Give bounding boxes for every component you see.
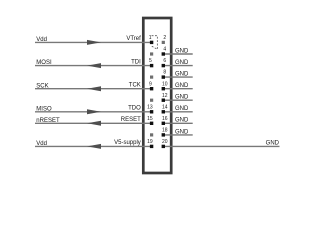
wire pin 4 to GND [163,53,192,55]
connector J1 body [143,18,171,173]
pin 3 pad (n.c.) [150,52,153,55]
pin 14 pad [162,110,165,113]
wire Vdd to pin 1 VTref [35,41,152,43]
svg-text:20: 20 [162,139,168,145]
svg-text:13: 13 [147,104,153,110]
svg-text:10: 10 [162,81,168,87]
svg-text:8: 8 [163,70,166,76]
svg-text:5: 5 [149,58,152,64]
svg-text:Vdd: Vdd [36,37,47,43]
svg-text:GND: GND [175,118,189,124]
svg-text:9: 9 [149,81,152,87]
pin 13 pad [150,110,153,113]
svg-text:RESET: RESET [121,117,141,123]
svg-text:GND: GND [266,141,280,147]
pin 10 pad [162,87,165,90]
svg-text:GND: GND [175,60,189,66]
pin 7 pad (n.c.) [150,76,153,79]
pin 1 marker (dashed) [151,36,158,50]
wire MISO to pin 13 TDO [35,111,152,113]
svg-text:15: 15 [147,116,153,122]
pin 9 pad [150,87,153,90]
pin 12 pad [162,99,165,102]
svg-text:GND: GND [175,83,189,89]
svg-text:GND: GND [175,95,189,101]
svg-text:16: 16 [162,116,168,122]
wire nRESET to pin 15 RESET [35,122,152,124]
arrow into pin 13 (right) [87,109,101,114]
pin 20 pad [162,145,165,148]
svg-text:GND: GND [175,106,189,112]
svg-text:6: 6 [163,58,166,64]
arrow out of pin 5 (left) [87,63,101,68]
svg-text:GND: GND [175,48,189,54]
svg-text:14: 14 [162,104,168,110]
svg-text:1: 1 [149,35,152,41]
arrow out of pin 19 (left) [87,144,101,149]
pin 18 pad [162,133,165,136]
pin 4 pad [162,52,165,55]
svg-text:MOSI: MOSI [36,60,52,66]
wire MOSI to pin 5 TDI [35,65,152,67]
svg-text:12: 12 [162,93,168,99]
wire pin 14 to GND [163,111,192,113]
svg-text:2: 2 [163,35,166,41]
pin 17 pad (n.c.) [150,133,153,136]
svg-text:GND: GND [175,129,189,135]
svg-text:18: 18 [162,128,168,134]
svg-text:Vdd: Vdd [36,141,47,147]
svg-text:4: 4 [163,47,166,53]
pin 15 pad [150,122,153,125]
wire SCK to pin 9 TCK [35,88,152,90]
arrow out of pin 15 (left) [87,121,101,126]
svg-text:TDO: TDO [128,106,141,112]
svg-text:SCK: SCK [36,83,48,89]
arrow out of pin 9 (left) [87,86,101,91]
pin 2 pad (n.c.) [162,41,165,44]
svg-text:VTref: VTref [126,36,141,42]
svg-text:TCK: TCK [129,83,141,89]
svg-text:TDI: TDI [131,59,141,65]
wire pin 6 to GND [163,65,192,67]
pin 5 pad [150,64,153,67]
wire Vdd to pin 19 V5-supply [35,145,152,147]
svg-text:19: 19 [147,139,153,145]
wire pin 10 to GND [163,88,192,90]
pin 6 pad [162,64,165,67]
svg-text:GND: GND [175,72,189,78]
wire pin 20 to GND (long) [163,145,279,147]
pin 19 pad [150,145,153,148]
wire pin 12 to GND [163,99,192,101]
pin 16 pad [162,122,165,125]
svg-text:nRESET: nRESET [36,118,60,124]
svg-text:V5-supply: V5-supply [114,140,141,146]
pin 11 pad (n.c.) [150,99,153,102]
wire pin 16 to GND [163,122,192,124]
pin 8 pad [162,75,165,78]
pin 1 pad [150,41,153,44]
arrow into pin 1 (right) [87,40,101,45]
wire pin 8 to GND [163,76,192,78]
wire pin 18 to GND [163,134,192,136]
svg-text:MISO: MISO [36,106,52,112]
